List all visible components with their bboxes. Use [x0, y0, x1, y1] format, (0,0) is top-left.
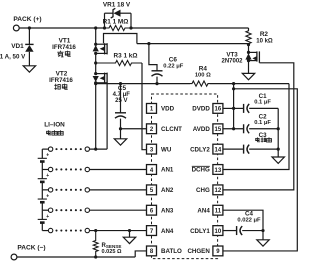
svg-text:2N7002: 2N7002: [221, 59, 243, 65]
pin 15 name AVDD: [193, 126, 211, 133]
svg-text:IFR7416: IFR7416: [52, 44, 76, 51]
svg-text:+: +: [46, 173, 49, 179]
wire battery+ to FETs: [90, 148, 108, 151]
resistor R4: [190, 81, 210, 86]
svg-text:AN4: AN4: [161, 228, 174, 235]
svg-text:VD1: VD1: [11, 43, 24, 50]
wire R3 to pin3 WU vertical: [142, 63, 147, 150]
svg-text:0.025 Ω: 0.025 Ω: [102, 249, 123, 255]
label C6: [169, 56, 178, 63]
capacitor C3: [244, 145, 280, 154]
svg-text:C6: C6: [169, 56, 178, 63]
ground on battery- row: [123, 229, 135, 244]
wire VDD rail right: [210, 82, 289, 85]
label VT1 part: [52, 44, 76, 51]
pin 12 name CHG: [196, 187, 210, 194]
battery tap row 2: [42, 167, 89, 171]
wire VDD rail: [94, 82, 190, 85]
resistor R2: [246, 28, 251, 45]
battery cell B3: [38, 190, 50, 210]
wire pin14 stub: [223, 148, 244, 150]
wire DCHG riser: [223, 84, 289, 170]
ground below VD1: [23, 66, 35, 72]
wire DVDD vertical: [232, 84, 235, 129]
ground below C5: [114, 129, 126, 145]
pin 11 box (AN4): [213, 205, 223, 215]
ground below C4: [257, 231, 269, 247]
pin 9 name CHGEN: [187, 248, 210, 255]
wire top rail R1 to R2: [131, 27, 249, 29]
pin 9 box (CHGEN): [213, 246, 223, 256]
label LI-ION: [44, 121, 65, 128]
pin 1 name VDD: [161, 106, 175, 113]
diode VD1: [25, 28, 33, 66]
svg-text:AN2: AN2: [161, 187, 174, 194]
capacitor C6: [147, 42, 162, 85]
label VT3 part: [221, 59, 243, 65]
pin 13 name DCHG: [192, 166, 210, 173]
svg-text:16: 16: [215, 107, 222, 113]
label R3: [114, 53, 138, 60]
terminal PACK(-): [11, 254, 17, 260]
terminal PACK(+): [13, 25, 19, 31]
label C1: [259, 93, 267, 100]
svg-text:VT3: VT3: [226, 52, 238, 59]
pin 16 name DVDD: [192, 106, 210, 113]
wire cell tap to pin 7: [90, 230, 147, 232]
label C3: [259, 132, 267, 139]
pin 6 name AN3: [161, 207, 174, 214]
transistor VT3: [245, 43, 259, 73]
wire main vertical VT2 to battery+: [95, 83, 97, 149]
label R4: [199, 66, 208, 73]
wire C bus down: [277, 108, 279, 157]
pin 3 box (WU): [147, 144, 157, 154]
svg-text:R2: R2: [260, 31, 269, 38]
battery tap row 4: [42, 208, 89, 212]
pin 2 name CLCNT: [161, 126, 182, 133]
svg-text:0.22 μF: 0.22 μF: [163, 63, 183, 69]
pin 7 name AN4: [161, 228, 174, 235]
wire VT2 drain down to battery+: [106, 83, 108, 149]
label VT3: [226, 52, 238, 59]
pin 15 box (AVDD): [213, 124, 223, 134]
wire cell tap to pin 6: [90, 209, 147, 211]
battery cell B1: [38, 149, 50, 169]
wire VT3 gate to CHG riser: [223, 63, 294, 190]
pin 4 box (AN1): [147, 165, 157, 175]
pin 8 box (BATLO): [147, 246, 157, 256]
pin 2 box (CLCNT): [147, 124, 157, 134]
svg-text:CLCNT: CLCNT: [161, 126, 182, 133]
svg-text:+: +: [46, 153, 49, 159]
label VT2 discharge CJK: [54, 84, 67, 90]
label C2 value: [254, 120, 271, 126]
label R1: [103, 19, 129, 26]
svg-text:+: +: [46, 214, 49, 220]
svg-text:AVDD: AVDD: [193, 126, 211, 133]
wire CHGEN rail: [223, 89, 297, 251]
label VT1 charge CJK: [57, 51, 70, 57]
svg-text:0.1 μF: 0.1 μF: [254, 120, 271, 126]
svg-text:25 V: 25 V: [115, 98, 127, 104]
transistor VT1: [93, 43, 108, 55]
wire VT1 gate jog: [104, 34, 137, 44]
pin 14 name CDLY2: [190, 146, 210, 153]
svg-text:IFR7416: IFR7416: [49, 77, 73, 84]
transistor VT2: [93, 72, 108, 84]
IC U1 dashed outline: [152, 94, 218, 259]
pin 10 name CDLY1: [190, 228, 210, 235]
junction RSENSE top: [94, 229, 97, 232]
capacitor C5: [115, 84, 126, 131]
label C5 value: [113, 92, 131, 98]
capacitor C1: [234, 104, 279, 113]
label R2: [260, 31, 269, 38]
svg-text:14: 14: [215, 147, 222, 153]
svg-text:1 A, 50 V: 1 A, 50 V: [0, 53, 26, 60]
wire pin16 stub: [223, 107, 234, 109]
svg-text:R3 1 kΩ: R3 1 kΩ: [114, 53, 138, 60]
svg-text:AN4: AN4: [197, 207, 210, 214]
capacitor C4: [223, 226, 263, 235]
resistor R3: [94, 60, 142, 65]
label C5 volt: [115, 98, 127, 104]
svg-text:R4: R4: [199, 66, 208, 73]
svg-text:BATLO: BATLO: [161, 248, 182, 255]
wire PACK- rail: [17, 255, 135, 258]
pin 6 box (AN3): [147, 205, 157, 215]
pin 13 box (DCHG): [213, 165, 223, 175]
svg-text:10: 10: [215, 229, 222, 235]
svg-text:10 kΩ: 10 kΩ: [256, 38, 273, 44]
svg-text:LI–ION: LI–ION: [44, 121, 65, 128]
svg-text:CDLY1: CDLY1: [190, 228, 210, 235]
node PACK(+) label: [13, 16, 41, 23]
zener VR1: [105, 8, 132, 28]
svg-text:CDLY2: CDLY2: [190, 146, 210, 153]
wire cell tap to pin 5: [90, 189, 147, 191]
label VT2 part: [49, 77, 73, 84]
label battery pack CJK: [47, 130, 64, 135]
label R2 value: [256, 38, 273, 44]
wire main vertical PACK+ to VT1: [95, 28, 97, 44]
wire pin11 AN4: [223, 210, 265, 232]
label PACK(-): [17, 244, 45, 251]
svg-text:AN1: AN1: [161, 167, 174, 174]
svg-text:VR1 18 V: VR1 18 V: [103, 1, 131, 8]
svg-text:CHGEN: CHGEN: [187, 248, 210, 255]
label VD1 rating: [0, 53, 26, 60]
label VR1: [103, 1, 131, 8]
wire PACK- up to BATLO: [135, 251, 146, 257]
pin 5 box (AN2): [147, 185, 157, 195]
ground below C bus: [272, 157, 284, 163]
battery tap row 5: [42, 228, 89, 232]
label VD1: [11, 43, 24, 50]
wire cell tap to pin 4: [90, 168, 147, 170]
svg-text:C5: C5: [118, 85, 127, 92]
ground below VT3: [242, 73, 254, 79]
svg-text:0.022 μF: 0.022 μF: [237, 217, 261, 223]
pin 10 box (CDLY1): [213, 226, 223, 236]
wire VT1 source to VT2: [95, 53, 97, 73]
pin 4 name AN1: [161, 167, 174, 174]
label C6 value: [163, 63, 183, 69]
pin 5 name AN2: [161, 187, 174, 194]
svg-text:PACK (+): PACK (+): [13, 16, 41, 23]
svg-text:DCHG: DCHG: [192, 167, 210, 174]
svg-text:WU: WU: [161, 146, 172, 153]
svg-text:15: 15: [215, 127, 222, 133]
battery cell B4: [38, 210, 50, 230]
pin 14 box (CDLY2): [213, 144, 223, 154]
label VT1: [59, 38, 71, 45]
svg-text:VDD: VDD: [161, 106, 175, 113]
svg-text:CHG: CHG: [196, 187, 210, 194]
pin 11 name AN4: [197, 207, 210, 214]
label R4 value: [195, 73, 211, 79]
svg-text:DVDD: DVDD: [192, 106, 210, 113]
svg-text:AN3: AN3: [161, 207, 174, 214]
svg-text:100 Ω: 100 Ω: [195, 73, 211, 79]
pin 3 name WU: [161, 146, 172, 153]
pin 8 name BATLO: [161, 248, 182, 255]
label C1 value: [254, 99, 271, 105]
label C2: [259, 114, 267, 121]
label RSENSE value: [102, 249, 123, 255]
wire pin15 stub: [223, 127, 244, 130]
wire PACK(+) top rail: [19, 26, 104, 29]
battery cell B2: [38, 169, 50, 189]
resistor R1: [103, 25, 133, 30]
pin 12 box (CHG): [213, 185, 223, 195]
pin 7 box (AN4): [147, 226, 157, 236]
capacitor C2: [244, 124, 280, 133]
resistor RSENSE: [93, 231, 98, 257]
label C5: [118, 85, 127, 92]
pin 1 box (VDD): [147, 104, 157, 114]
label C4 value: [237, 217, 261, 223]
svg-text:+: +: [46, 193, 49, 199]
label RSENSE: [102, 243, 122, 249]
label C4: [245, 211, 253, 218]
svg-text:13: 13: [215, 168, 222, 174]
battery tap row 1: [42, 147, 89, 151]
wire gate line to R2 bottom: [137, 43, 249, 45]
label C3 adjustable CJK: [256, 137, 272, 142]
svg-text:0.1 μF: 0.1 μF: [254, 99, 271, 105]
battery tap row 3: [42, 188, 89, 192]
wire CLCNT to C5 node: [121, 128, 147, 130]
pin 16 box (DVDD): [213, 104, 223, 114]
svg-text:11: 11: [215, 209, 222, 215]
label VT2: [56, 71, 68, 78]
svg-text:PACK (−): PACK (−): [17, 244, 45, 251]
svg-text:12: 12: [215, 188, 222, 194]
